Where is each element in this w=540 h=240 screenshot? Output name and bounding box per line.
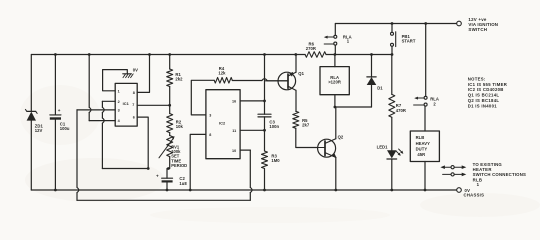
node R1 top [168, 53, 171, 56]
svg-text:1u8: 1u8 [179, 181, 187, 186]
wire RLA2 to RLB coil [424, 106, 426, 131]
wire Q1 collector to R5 [295, 90, 297, 111]
wire RLA coil top [334, 55, 336, 67]
zener diode ZD1 12V [27, 110, 36, 112]
transistor Q1 BC214L [278, 72, 296, 90]
svg-text:2: 2 [118, 100, 120, 104]
svg-text:Q1 IS BC214L: Q1 IS BC214L [468, 93, 500, 98]
resistor R5 2k7 [293, 111, 299, 128]
svg-text:+: + [156, 174, 159, 179]
wire C3 column from rail [264, 55, 266, 115]
resistor R1 2k2 [169, 55, 171, 70]
node Q1 emitter rail [294, 53, 297, 56]
terminal 12V ignition [457, 21, 462, 26]
svg-text:D1: D1 [377, 86, 383, 91]
svg-text:Q1: Q1 [298, 71, 304, 76]
svg-text:HEAVY: HEAVY [416, 141, 431, 146]
svg-text:IC1: IC1 [123, 101, 130, 106]
svg-text:1: 1 [477, 182, 480, 187]
svg-text:D1 IS IN4001: D1 IS IN4001 [468, 103, 497, 108]
wire R7 to LED [391, 117, 393, 150]
diode D1 1N4001 [371, 55, 373, 77]
svg-text:PERIOD: PERIOD [171, 163, 187, 168]
node RV1 C2 junction [167, 167, 170, 170]
wire IC2 pin16 [240, 100, 264, 102]
wire IC1 pin3 output net [77, 109, 115, 111]
svg-text:Q2 IS BC184L: Q2 IS BC184L [468, 98, 500, 103]
LED LED1 [387, 150, 397, 158]
svg-text:12V: 12V [35, 128, 43, 133]
svg-text:10k: 10k [176, 124, 184, 129]
svg-text:7: 7 [132, 103, 134, 107]
node C1 top [54, 53, 57, 56]
wire junction to D1 [335, 106, 372, 108]
resistor R7 470R [389, 94, 395, 117]
wire IC1 pin2 net [102, 100, 115, 102]
wire C1 top [54, 55, 56, 115]
node C1 bottom [54, 189, 57, 192]
svg-text:3: 3 [209, 114, 211, 118]
relay coil RLA >120R [320, 67, 349, 95]
node C2 bottom [166, 189, 169, 192]
node Q2 emitter rail [334, 189, 337, 192]
svg-text:1M0: 1M0 [271, 158, 280, 163]
svg-text:270R: 270R [306, 46, 316, 51]
wire 0V chassis rail [31, 189, 456, 191]
RLB contact arrows to heater [440, 165, 445, 169]
node C3 column top [263, 53, 266, 56]
svg-text:11: 11 [232, 129, 236, 133]
svg-text:START: START [402, 39, 416, 44]
node LED bottom [390, 189, 393, 192]
svg-text:2k7: 2k7 [302, 123, 310, 128]
svg-text:>120R: >120R [328, 80, 341, 85]
capacitor C2 1u8 polarised [166, 169, 168, 179]
svg-text:45R: 45R [417, 152, 425, 157]
node RLA2 top [424, 22, 427, 25]
ground 0V symbol [123, 73, 132, 75]
node RLB bottom rail [424, 189, 427, 192]
wire top +12V rail [336, 23, 457, 25]
wire C1 bottom [54, 120, 56, 190]
switch PB1 START [391, 32, 394, 35]
resistor R4 12k [214, 78, 232, 84]
node pin11 junction [263, 129, 266, 132]
op-amp U2 IC2 CD4020B box [206, 90, 240, 159]
svg-text:Q2: Q2 [338, 135, 344, 140]
capacitor C1 100u polarised [50, 114, 61, 116]
wire RLA1 top [334, 24, 336, 36]
resistor R3 1M0 [264, 130, 266, 151]
node pin8 riser [148, 53, 151, 56]
wire IC1 pin8 to rail [137, 55, 149, 93]
wire R7 top [391, 55, 393, 95]
wire ZD1 column bottom [30, 121, 32, 190]
terminal 0V chassis [457, 188, 462, 193]
wire IC1 pin7 to R1/R2 junction [137, 104, 170, 106]
svg-text:3: 3 [118, 109, 120, 113]
node PB1 rail end [391, 53, 394, 56]
wire RLA2 drop [425, 24, 427, 97]
svg-text:100n: 100n [269, 124, 279, 129]
svg-text:10: 10 [232, 149, 236, 153]
wire RLB coil bottom [424, 162, 426, 191]
contact RLA1 [334, 35, 337, 38]
wire Q1 emitter to rail [295, 55, 297, 73]
svg-text:CHASSIS: CHASSIS [464, 193, 485, 198]
svg-text:1: 1 [118, 89, 120, 93]
node pin16 junction [263, 100, 266, 103]
wire C3 bottom [264, 117, 266, 130]
svg-text:SWITCH: SWITCH [468, 27, 487, 32]
svg-text:DUTY: DUTY [416, 146, 428, 151]
wire IC2 pin3 to R4 [191, 80, 214, 115]
wire +V rail right section [326, 54, 392, 56]
resistor R2 10k [169, 105, 171, 113]
node coil/diode/collector junction [334, 106, 337, 109]
wire PB1 bottom [391, 46, 393, 54]
svg-text:2k2: 2k2 [175, 76, 183, 81]
wire IC1 pin1 to 0V loop [103, 70, 128, 91]
node IC2 pin8 rail [189, 189, 192, 192]
op-amp U1 IC1 555 timer box [115, 83, 137, 126]
wire Q2 emitter down [335, 157, 337, 190]
wire RLA coil bottom [334, 95, 336, 107]
wire Q2 collector up [335, 107, 337, 139]
svg-text:100u: 100u [60, 126, 70, 131]
svg-text:470R: 470R [396, 108, 406, 113]
contact RLA2 [424, 96, 427, 99]
svg-text:IC1 IS 555 TIMER: IC1 IS 555 TIMER [468, 82, 507, 87]
svg-text:+: + [58, 108, 61, 113]
svg-text:8: 8 [133, 91, 135, 95]
wire ZD1 column top [30, 55, 32, 112]
resistor R6 270R [305, 52, 326, 58]
svg-text:RLB: RLB [416, 135, 425, 140]
wire +V rail left section [32, 54, 306, 56]
svg-text:16: 16 [232, 100, 236, 104]
wire R4 to Q1 base [232, 80, 262, 82]
node R1 R2 pin7 junction [168, 104, 171, 107]
capacitor C3 100n [258, 113, 271, 115]
svg-text:12k: 12k [218, 71, 226, 76]
node PB1 top [391, 22, 394, 25]
wire IC2 pin11 [240, 129, 264, 131]
wire R5 to Q2 base [296, 128, 318, 147]
svg-text:IC2 IS CD4020B: IC2 IS CD4020B [468, 87, 504, 92]
wire LED to rail [391, 159, 393, 190]
node pin4 drop [88, 53, 91, 56]
relay coil RLB heavy duty [410, 131, 439, 162]
node D1 top [370, 53, 373, 56]
potentiometer RV1 100k [169, 133, 171, 136]
wire IC1 pin4 reset to rail [88, 55, 90, 108]
svg-text:8: 8 [209, 133, 211, 137]
wire IC2 pin8 to 0V [190, 134, 206, 190]
transistor Q2 BC184L [318, 139, 336, 157]
svg-text:NOTES:: NOTES: [468, 76, 486, 81]
svg-text:0V: 0V [133, 68, 138, 73]
node R3 bottom [263, 189, 266, 192]
node pin6 junction [147, 167, 150, 170]
wire RLA1 bottom [334, 45, 336, 54]
node RLA coil top [334, 53, 337, 56]
svg-text:IC2: IC2 [219, 121, 226, 126]
svg-text:LED1: LED1 [377, 145, 389, 150]
svg-text:6: 6 [133, 116, 135, 120]
wire IC1 pin6 net [137, 117, 148, 168]
wire PB1 top [391, 24, 393, 33]
